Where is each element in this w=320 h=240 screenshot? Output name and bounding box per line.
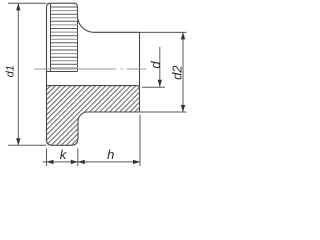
svg-text:d2: d2 bbox=[169, 65, 184, 80]
dimension d1 extension line top bbox=[8, 2, 47, 4]
dimension d2 extension line top bbox=[140, 31, 187, 33]
knurl lines bbox=[51, 7, 78, 68]
dimension k extension line left bbox=[46, 149, 48, 167]
knurl right edge line bbox=[77, 7, 79, 71]
dimension d1 extension line bottom bbox=[8, 144, 47, 146]
d2 arrow up bbox=[181, 32, 185, 39]
dimension k extension line right bbox=[77, 149, 79, 167]
svg-text:d: d bbox=[148, 61, 163, 69]
knurl face inner edge line bbox=[50, 4, 52, 71]
svg-text:d1: d1 bbox=[4, 65, 16, 77]
center line (axis) bbox=[34, 68, 146, 70]
h arrow right bbox=[133, 160, 140, 164]
part outline bbox=[47, 3, 140, 145]
dimension d2 extension line bottom bbox=[140, 111, 187, 113]
svg-text:h: h bbox=[107, 147, 114, 162]
hatched section area bbox=[47, 86, 140, 145]
d2 arrow down bbox=[181, 105, 185, 112]
dimension d line bbox=[159, 47, 161, 87]
dimension h extension line right bbox=[139, 115, 141, 167]
h arrow left bbox=[78, 160, 85, 164]
k arrow left bbox=[47, 160, 54, 164]
dimension d extension line bbox=[142, 86, 165, 88]
d1 arrow up bbox=[16, 3, 20, 10]
dimension d1 line bbox=[17, 4, 19, 146]
thread hole line bbox=[47, 86, 140, 90]
knurl bottom boundary line bbox=[47, 71, 78, 73]
k arrow right bbox=[71, 160, 78, 164]
dimension d2 line bbox=[182, 32, 184, 112]
d arrow down bbox=[158, 80, 162, 87]
dimension line k and h bbox=[43, 161, 141, 163]
d1 arrow down bbox=[16, 138, 20, 145]
